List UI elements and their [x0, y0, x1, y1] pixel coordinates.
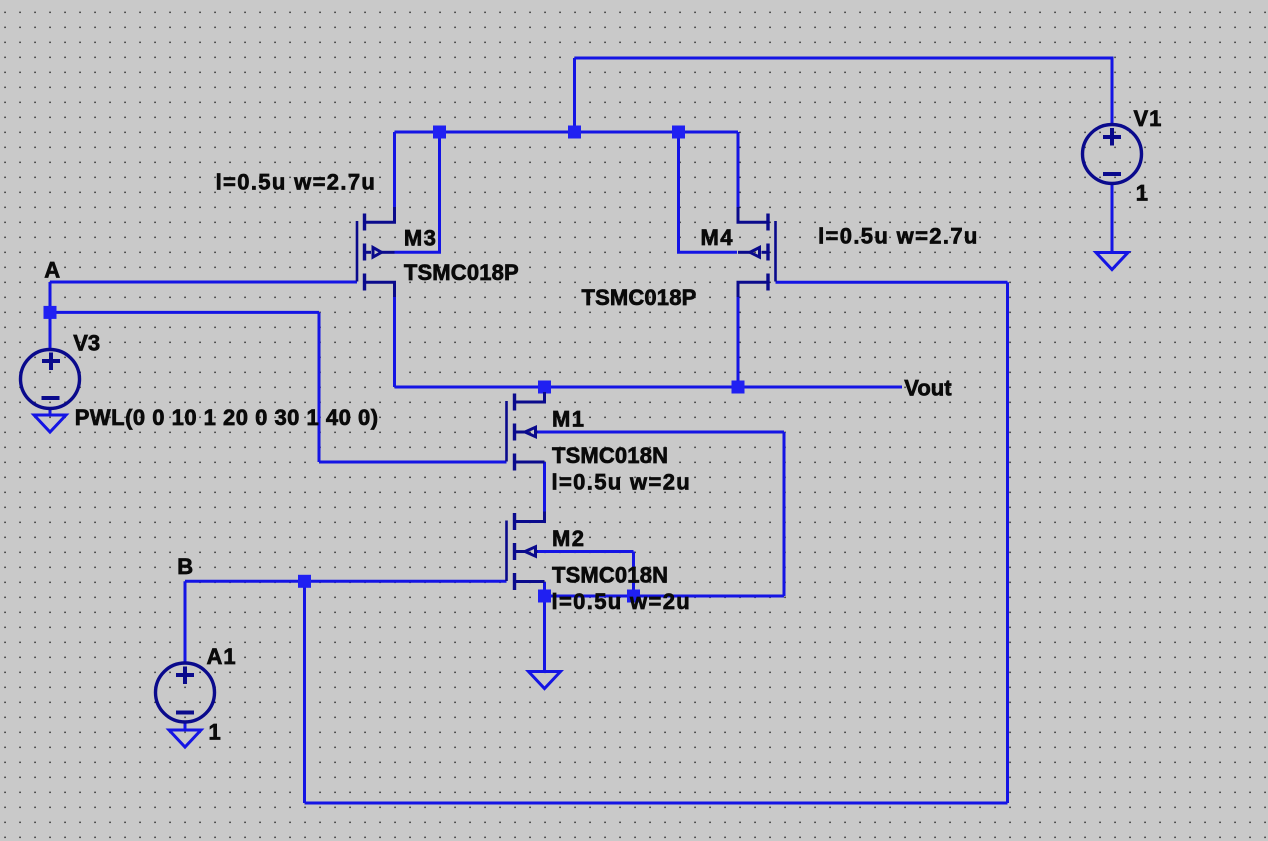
- svg-text:1: 1: [209, 720, 221, 745]
- node junction M2 source-gnd: [538, 590, 551, 603]
- svg-text:Vout: Vout: [904, 375, 952, 400]
- wire node A to V3 plus: [49, 282, 52, 350]
- svg-text:l=0.5u w=2.7u: l=0.5u w=2.7u: [818, 224, 979, 249]
- svg-text:TSMC018N: TSMC018N: [552, 563, 668, 588]
- transistor M2 (NMOS): [507, 512, 545, 591]
- wire M1 bulk horizontal: [536, 431, 784, 434]
- svg-text:TSMC018N: TSMC018N: [552, 443, 668, 468]
- svg-text:A1: A1: [207, 644, 237, 669]
- svg-text:TSMC018P: TSMC018P: [404, 260, 519, 285]
- svg-text:V1: V1: [1134, 106, 1163, 131]
- node junction M2 bulk-source rail: [627, 590, 640, 603]
- svg-text:V3: V3: [73, 330, 100, 355]
- wire node B horizontal to M2 gate: [185, 580, 507, 583]
- svg-text:1: 1: [1136, 181, 1148, 206]
- wire Vout rail: [395, 386, 903, 389]
- wire node B to A1 plus: [184, 581, 187, 663]
- svg-text:B: B: [177, 554, 193, 579]
- wire M1 drain pin: [543, 387, 546, 402]
- wire M4 source down to Vout rail: [737, 282, 740, 387]
- transistor M4 (PMOS, mirrored): [738, 207, 776, 297]
- wire M2 bulk horizontal: [536, 550, 634, 553]
- svg-text:M4: M4: [701, 225, 734, 250]
- node junction B: [298, 575, 311, 588]
- voltage source V1: [1083, 125, 1142, 184]
- svg-text:M3: M3: [404, 226, 437, 251]
- svg-text:l=0.5u w=2.7u: l=0.5u w=2.7u: [216, 169, 377, 194]
- wire M4 bulk riser: [679, 132, 738, 252]
- svg-text:M2: M2: [552, 526, 585, 551]
- svg-text:l=0.5u w=2u: l=0.5u w=2u: [552, 589, 692, 614]
- svg-text:l=0.5u w=2u: l=0.5u w=2u: [552, 470, 692, 495]
- wire ground stem under M2: [543, 596, 546, 671]
- node junction A: [44, 306, 57, 319]
- wire right riser: [1006, 282, 1009, 803]
- node junction VDD drop: [568, 126, 581, 139]
- wire V1 top pin: [1111, 57, 1114, 126]
- wire M2 source pin: [543, 582, 546, 596]
- wire VDD rail: [395, 131, 739, 134]
- ground below A1: [169, 722, 201, 747]
- wire source rail to ground node: [545, 595, 785, 598]
- wire bottom rail: [305, 802, 1008, 805]
- svg-text:M1: M1: [552, 406, 585, 431]
- svg-text:PWL(0 0 10 1 20 0 30 1 40 0): PWL(0 0 10 1 20 0 30 1 40 0): [75, 405, 379, 430]
- voltage source A1: [156, 663, 215, 722]
- wire node B drop: [303, 581, 306, 803]
- transistor M1 (NMOS): [507, 392, 545, 471]
- ground below M2: [529, 672, 561, 689]
- wire M3 bulk riser: [395, 132, 440, 252]
- transistor M3 (PMOS): [357, 207, 395, 297]
- wire M2 bulk vertical: [632, 552, 635, 597]
- wire M3 drain pin: [393, 132, 396, 210]
- wire VDD top horizontal: [575, 57, 1113, 60]
- wire M3 source down to Vout rail: [393, 282, 396, 387]
- ground below V1: [1096, 184, 1128, 270]
- node junction VDD-M3bulk: [433, 126, 446, 139]
- wire to M4 gate: [776, 281, 1008, 284]
- wire M1 source to M2 drain: [543, 462, 546, 522]
- wire node A horizontal to M3 gate: [50, 281, 357, 284]
- node junction VDD-M4bulk: [672, 126, 685, 139]
- ground below V3: [34, 408, 66, 432]
- wire M1 bulk vertical: [783, 432, 786, 596]
- wire VDD vertical drop: [573, 58, 576, 132]
- node junction Vout-M4source: [732, 381, 745, 394]
- wire node A branch vertical: [318, 312, 321, 462]
- wire to M1 gate: [319, 461, 507, 464]
- svg-text:TSMC018P: TSMC018P: [582, 285, 697, 310]
- wire node A branch horizontal: [50, 311, 319, 314]
- svg-text:A: A: [44, 258, 60, 283]
- node junction Vout-M1drain: [538, 381, 551, 394]
- voltage source V3: [21, 350, 80, 409]
- wire M4 drain pin: [737, 132, 740, 210]
